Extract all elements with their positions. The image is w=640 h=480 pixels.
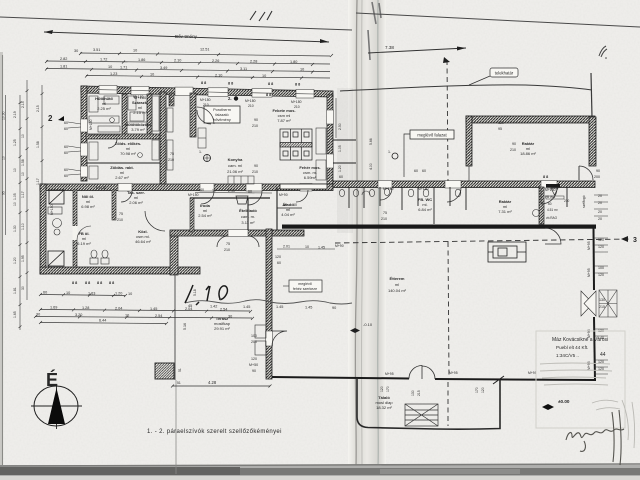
terrace left edge + chimney xyxy=(174,272,176,380)
svg-text:3: 3 xyxy=(633,237,637,244)
svg-text:1.81: 1.81 xyxy=(13,287,17,294)
svg-text:120: 120 xyxy=(498,121,504,125)
svg-text:8 8: 8 8 xyxy=(97,281,102,285)
svg-text:10: 10 xyxy=(150,73,154,77)
svg-text:M+180: M+180 xyxy=(418,187,429,191)
svg-text:60: 60 xyxy=(548,202,552,206)
svg-text:10: 10 xyxy=(13,202,17,206)
telekhatar label box xyxy=(469,68,518,85)
svg-text:1.45: 1.45 xyxy=(276,305,283,309)
svg-text:130: 130 xyxy=(411,390,415,396)
svg-text:Bőv-tmény: Bőv-tmény xyxy=(175,34,198,39)
svg-text:95: 95 xyxy=(498,127,502,131)
meglevo fehaz label right xyxy=(283,280,322,292)
telekhatar curve right xyxy=(340,85,592,91)
shelf right of kitchen xyxy=(280,184,327,189)
svg-text:20: 20 xyxy=(598,194,602,198)
svg-text:M+95: M+95 xyxy=(587,241,591,250)
svg-text:51: 51 xyxy=(178,368,182,372)
svg-text:21.06 m²: 21.06 m² xyxy=(227,169,243,174)
svg-text:6.98 m²: 6.98 m² xyxy=(81,204,95,209)
dashed section lines xyxy=(447,60,448,181)
svg-text:120: 120 xyxy=(598,273,604,277)
svg-text:1.40: 1.40 xyxy=(197,188,204,192)
7.38 dimension xyxy=(368,45,466,53)
left block inner wall xyxy=(73,190,77,267)
furniture left of etterem door xyxy=(255,325,266,355)
svg-text:60: 60 xyxy=(64,145,68,149)
kitchen small furniture xyxy=(198,128,326,184)
door jamb stub x169 xyxy=(169,93,174,106)
etterem left wall xyxy=(266,229,272,379)
svg-text:8 8: 8 8 xyxy=(266,93,271,97)
svg-text:2.28: 2.28 xyxy=(250,60,257,64)
svg-text:±0.00: ±0.00 xyxy=(558,399,570,404)
svg-text:100: 100 xyxy=(598,266,604,270)
inner wall v3 xyxy=(160,92,166,188)
svg-text:2.06 m²: 2.06 m² xyxy=(129,200,143,205)
left wall upper block xyxy=(81,86,87,181)
wall between Noi ol and Tak szer xyxy=(112,190,116,220)
svg-text:210: 210 xyxy=(252,124,258,128)
svg-text:60: 60 xyxy=(277,261,281,265)
svg-text:vb.RAO: vb.RAO xyxy=(546,216,558,220)
svg-text:M+180: M+180 xyxy=(383,187,394,191)
svg-text:2.01: 2.01 xyxy=(283,245,290,249)
double leaf door right xyxy=(581,291,596,316)
svg-text:2.19: 2.19 xyxy=(13,111,17,118)
svg-text:5.18: 5.18 xyxy=(193,289,197,296)
site boundary line left page xyxy=(0,17,352,30)
svg-text:1.58: 1.58 xyxy=(36,141,40,148)
stairs box annex xyxy=(405,404,438,426)
upper-left room fixtures xyxy=(89,96,173,179)
svg-text:M+95: M+95 xyxy=(385,372,394,376)
M+ labels xyxy=(96,95,570,376)
svg-text:1.17: 1.17 xyxy=(36,178,40,185)
terrace top wavy line xyxy=(185,300,352,304)
svg-text:1.20: 1.20 xyxy=(115,292,122,296)
svg-text:90: 90 xyxy=(252,369,256,373)
WC row partitions xyxy=(349,187,466,224)
svg-text:60: 60 xyxy=(64,121,68,125)
svg-text:M+180: M+180 xyxy=(96,186,107,190)
x-box window schedule xyxy=(599,290,617,317)
site boundary line right page xyxy=(356,13,640,27)
svg-text:M+180: M+180 xyxy=(291,100,302,104)
svg-text:2.50: 2.50 xyxy=(338,123,342,130)
svg-text:8 8: 8 8 xyxy=(201,81,206,85)
svg-text:215: 215 xyxy=(599,305,605,309)
svg-text:1.28: 1.28 xyxy=(82,306,89,310)
vestibule wall x540 xyxy=(539,187,544,224)
big Raktar left wall xyxy=(466,116,472,166)
stamp box xyxy=(536,331,625,428)
terrace chain numbers xyxy=(188,304,336,310)
inner wall v2 xyxy=(147,94,152,137)
svg-text:1.69: 1.69 xyxy=(50,306,57,310)
wall y230 corridor bottom xyxy=(170,230,304,236)
pantry column walls xyxy=(333,140,356,163)
svg-text:M+95: M+95 xyxy=(528,371,537,375)
svg-text:200: 200 xyxy=(251,340,257,344)
svg-text:1.45: 1.45 xyxy=(243,305,250,309)
svg-text:75: 75 xyxy=(170,152,174,156)
svg-text:210: 210 xyxy=(252,170,258,174)
Atado wall xyxy=(276,187,278,230)
svg-text:7.31 m²: 7.31 m² xyxy=(498,209,512,214)
chain y249 xyxy=(277,248,335,250)
marker 2. on top wall xyxy=(234,96,238,100)
svg-text:120: 120 xyxy=(251,357,257,361)
svg-text:10: 10 xyxy=(128,292,132,296)
svg-text:10: 10 xyxy=(212,189,216,193)
svg-text:Étterem: Étterem xyxy=(390,276,405,281)
svg-text:2.10: 2.10 xyxy=(228,189,235,193)
svg-text:75: 75 xyxy=(226,242,230,246)
svg-text:120: 120 xyxy=(380,386,384,392)
left block sinks/wc xyxy=(48,207,109,264)
svg-text:75: 75 xyxy=(119,212,123,216)
svg-text:18.32 m²: 18.32 m² xyxy=(376,405,392,410)
fence vertical right xyxy=(591,73,592,117)
svg-text:215: 215 xyxy=(417,390,421,396)
svg-text:7.38: 7.38 xyxy=(385,45,394,50)
svg-text:90: 90 xyxy=(332,306,336,310)
svg-text:8 8: 8 8 xyxy=(228,82,233,86)
svg-text:4.28: 4.28 xyxy=(208,380,217,385)
svg-text:Porotherm: Porotherm xyxy=(213,108,231,112)
svg-text:falazató: falazató xyxy=(215,113,228,117)
handwritten 1,10 xyxy=(185,285,227,305)
svg-text:2.25 m²: 2.25 m² xyxy=(97,106,111,111)
svg-text:1.10: 1.10 xyxy=(21,223,25,230)
svg-text:4.51 m²: 4.51 m² xyxy=(547,208,558,212)
raktar door arc bottom right xyxy=(579,166,593,180)
svg-text:20: 20 xyxy=(598,217,602,221)
WC fixtures xyxy=(339,188,460,196)
handwritten 111 top xyxy=(250,11,272,21)
svg-text:90: 90 xyxy=(596,169,600,173)
svg-text:10: 10 xyxy=(305,245,309,249)
svg-text:10: 10 xyxy=(108,65,112,69)
svg-text:200: 200 xyxy=(594,175,600,179)
north arrow xyxy=(31,369,82,429)
svg-text:M+180: M+180 xyxy=(169,92,173,103)
svg-text:FB WC: FB WC xyxy=(545,195,556,199)
svg-text:meglévő falazat: meglévő falazat xyxy=(417,133,447,138)
svg-text:2.: 2. xyxy=(228,96,232,101)
terrace upper wall L xyxy=(170,231,178,275)
right wall lower section xyxy=(593,228,596,290)
svg-text:M+95: M+95 xyxy=(449,371,458,375)
svg-text:18.86 m²: 18.86 m² xyxy=(520,151,536,156)
svg-text:10: 10 xyxy=(21,134,25,138)
annex talalo outline xyxy=(357,379,500,429)
svg-text:2: 2 xyxy=(48,114,53,123)
svg-text:telekhatár: telekhatár xyxy=(495,71,514,76)
svg-text:3.11 m²: 3.11 m² xyxy=(241,220,255,225)
right margin dim column xyxy=(597,194,605,371)
svg-text:12.51: 12.51 xyxy=(200,48,210,52)
svg-text:170: 170 xyxy=(475,387,479,393)
entry desk etterem xyxy=(488,242,526,262)
svg-text:10: 10 xyxy=(13,168,17,172)
svg-text:fehéz szerkeze: fehéz szerkeze xyxy=(293,287,317,291)
extra 8 8 pairs bottom-left xyxy=(85,281,114,285)
svg-text:M+180: M+180 xyxy=(245,99,256,103)
svg-text:M+180: M+180 xyxy=(200,98,211,102)
svg-text:2.26: 2.26 xyxy=(212,59,219,63)
rotated door dims bottom xyxy=(193,289,485,396)
inner wall v1 xyxy=(122,94,127,137)
kitchen circles xyxy=(204,155,211,162)
svg-text:1.95: 1.95 xyxy=(21,255,25,262)
svg-text:1.: 1. xyxy=(199,150,202,154)
svg-text:210: 210 xyxy=(248,104,254,108)
svg-text:120: 120 xyxy=(598,245,604,249)
svg-text:Ételkiadó: Ételkiadó xyxy=(239,208,257,213)
svg-text:1.45: 1.45 xyxy=(318,246,325,250)
svg-text:1.72: 1.72 xyxy=(100,58,107,62)
svg-text:30: 30 xyxy=(228,315,232,319)
top wall upper-left block xyxy=(81,86,333,97)
chain y192 left xyxy=(195,192,272,195)
svg-text:210: 210 xyxy=(510,148,516,152)
svg-text:cam. m.: cam. m. xyxy=(241,214,255,219)
svg-text:8 8: 8 8 xyxy=(295,83,300,87)
svg-text:30: 30 xyxy=(74,49,78,53)
svg-text:210: 210 xyxy=(168,158,174,162)
svg-text:M+180: M+180 xyxy=(89,119,93,130)
svg-text:8 8: 8 8 xyxy=(72,281,77,285)
svg-text:2.54: 2.54 xyxy=(155,314,162,318)
svg-text:70.98 m²: 70.98 m² xyxy=(120,151,136,156)
meglevo falazat label xyxy=(404,130,454,177)
svg-text:210: 210 xyxy=(564,199,570,203)
svg-text:M+95: M+95 xyxy=(587,268,591,277)
svg-text:5.66: 5.66 xyxy=(369,138,373,145)
svg-text:46.64 m²: 46.64 m² xyxy=(135,239,151,244)
serving hatch Etelkiado xyxy=(236,196,248,204)
bottom-left dim chains xyxy=(35,295,252,324)
svg-text:8 8: 8 8 xyxy=(109,281,114,285)
heavy front wall kitchen block xyxy=(282,225,596,229)
svg-text:90: 90 xyxy=(512,142,516,146)
svg-text:M+150: M+150 xyxy=(188,193,199,197)
svg-text:1.: 1. xyxy=(388,150,391,154)
svg-text:Puebl elt 44 Kft.: Puebl elt 44 Kft. xyxy=(556,345,588,350)
svg-text:140.04 m²: 140.04 m² xyxy=(388,288,407,293)
svg-text:1.05: 1.05 xyxy=(13,193,17,200)
-0.10 mark etterem xyxy=(350,328,360,333)
svg-text:1.81: 1.81 xyxy=(60,65,67,69)
svg-text:1.71: 1.71 xyxy=(120,66,127,70)
svg-text:1.58: 1.58 xyxy=(21,159,25,166)
svg-text:120: 120 xyxy=(598,238,604,242)
svg-text:2.10: 2.10 xyxy=(174,59,181,63)
svg-text:29.91 m²: 29.91 m² xyxy=(214,326,230,331)
handwritten check top right xyxy=(599,46,607,57)
svg-text:1.25: 1.25 xyxy=(13,139,17,146)
svg-text:95: 95 xyxy=(2,191,6,195)
svg-text:6.59m²: 6.59m² xyxy=(304,175,317,180)
kitchen equipment grid xyxy=(280,129,312,160)
terrace bottom dim xyxy=(172,385,270,387)
svg-text:10: 10 xyxy=(21,172,25,176)
svg-text:M+95: M+95 xyxy=(587,361,591,370)
small dims pairs xyxy=(64,118,600,265)
svg-text:90: 90 xyxy=(254,118,258,122)
left paper edge xyxy=(0,52,3,468)
svg-text:60: 60 xyxy=(64,151,68,155)
big Raktar top wall xyxy=(466,116,595,123)
svg-text:130: 130 xyxy=(599,298,605,302)
svg-text:2.67 m²: 2.67 m² xyxy=(115,175,129,180)
svg-text:szélfogó: szélfogó xyxy=(582,195,586,208)
svg-text:3.51: 3.51 xyxy=(93,48,100,52)
double door at etterem bottom xyxy=(409,366,435,380)
svg-text:210: 210 xyxy=(224,248,230,252)
svg-text:2.54 m²: 2.54 m² xyxy=(198,213,212,218)
left block bottom wall xyxy=(40,267,200,274)
fold crease band center xyxy=(348,0,386,468)
wall v4 kitchen left jamb xyxy=(190,93,196,137)
etterem door arc xyxy=(272,331,287,346)
svg-text:M+90: M+90 xyxy=(279,193,288,197)
svg-text:5.16: 5.16 xyxy=(183,323,187,330)
kitchen right wall xyxy=(327,95,333,187)
8 8 symbol pairs xyxy=(72,81,548,285)
svg-text:3.49: 3.49 xyxy=(160,66,167,70)
svg-text:1.42: 1.42 xyxy=(210,304,217,308)
Bov-tmeny dimension arrow xyxy=(44,30,329,43)
svg-text:M+90: M+90 xyxy=(335,244,344,248)
svg-text:30: 30 xyxy=(36,313,40,317)
svg-text:60: 60 xyxy=(414,169,418,173)
svg-text:M+180: M+180 xyxy=(545,188,556,192)
svg-text:2.15 m³: 2.15 m³ xyxy=(133,110,147,115)
svg-text:1.05: 1.05 xyxy=(338,145,342,152)
svg-text:10: 10 xyxy=(262,74,266,78)
svg-text:51: 51 xyxy=(177,381,181,385)
svg-text:75: 75 xyxy=(383,211,387,215)
kitchen top-left door arcs xyxy=(197,107,214,124)
svg-text:1.80: 1.80 xyxy=(290,60,297,64)
svg-text:Konyha: Konyha xyxy=(228,157,243,162)
porotherm label box xyxy=(204,106,240,123)
svg-text:20: 20 xyxy=(598,201,602,205)
svg-text:60: 60 xyxy=(64,168,68,172)
svg-text:1:34C/V5 ..: 1:34C/V5 .. xyxy=(556,353,579,358)
svg-text:44: 44 xyxy=(600,352,606,358)
svg-text:M+50: M+50 xyxy=(249,363,258,367)
svg-text:Máz Kovácsikné a Városi: Máz Kovácsikné a Városi xyxy=(552,337,608,343)
bottom paper edge band xyxy=(0,465,640,478)
svg-text:60: 60 xyxy=(422,169,426,173)
long wall over corridor (left part) xyxy=(40,184,333,191)
svg-text:10.30: 10.30 xyxy=(2,111,6,120)
svg-text:1.20: 1.20 xyxy=(338,165,342,172)
svg-text:8 8: 8 8 xyxy=(268,82,273,86)
svg-text:6.19 m²: 6.19 m² xyxy=(77,241,91,246)
svg-text:30: 30 xyxy=(21,286,25,290)
etterem bottom wall xyxy=(272,377,596,380)
svg-text:4.00: 4.00 xyxy=(369,163,373,170)
window gaps in top wall xyxy=(99,86,314,99)
svg-text:10: 10 xyxy=(66,291,70,295)
svg-text:60: 60 xyxy=(339,175,343,179)
signature xyxy=(566,410,624,465)
svg-text:210: 210 xyxy=(117,218,123,222)
Iroda walls xyxy=(190,197,270,199)
svg-text:2.82: 2.82 xyxy=(60,57,67,61)
svg-text:10: 10 xyxy=(2,156,6,160)
svg-text:1.86: 1.86 xyxy=(138,58,145,62)
left block fixtures: shower squares xyxy=(48,190,64,266)
svg-text:8 8: 8 8 xyxy=(543,175,548,179)
svg-text:3.79 m²: 3.79 m² xyxy=(131,127,145,132)
diagonal tick bottom wall xyxy=(493,376,504,384)
svg-text:4.04 m²: 4.04 m² xyxy=(281,212,295,217)
svg-text:2.15: 2.15 xyxy=(36,105,40,112)
svg-text:6.44: 6.44 xyxy=(99,319,106,323)
svg-text:M+150: M+150 xyxy=(50,204,54,215)
svg-text:cam. ml: cam. ml xyxy=(228,163,242,168)
door arcs xyxy=(108,139,561,247)
svg-text:120: 120 xyxy=(275,255,281,259)
inner wall horizontal y137 xyxy=(86,134,166,139)
left block left wall xyxy=(40,184,46,274)
svg-text:1.45: 1.45 xyxy=(305,306,312,310)
big Raktar right wall xyxy=(589,117,596,166)
svg-text:60: 60 xyxy=(64,127,68,131)
svg-text:-0.10: -0.10 xyxy=(363,322,373,327)
long wall right page y181 xyxy=(333,181,595,188)
svg-text:1.45: 1.45 xyxy=(150,307,157,311)
vestibule fixtures xyxy=(551,188,558,195)
svg-text:10: 10 xyxy=(133,49,137,53)
svg-text:3.20: 3.20 xyxy=(75,313,82,317)
svg-text:6.84 m²: 6.84 m² xyxy=(418,207,432,212)
svg-text:2.54: 2.54 xyxy=(220,308,227,312)
svg-text:1.65: 1.65 xyxy=(13,311,17,318)
svg-text:1.63: 1.63 xyxy=(88,291,95,295)
svg-text:1.23: 1.23 xyxy=(110,72,117,76)
svg-text:bővítmény: bővítmény xyxy=(213,118,231,122)
svg-text:60: 60 xyxy=(43,291,47,295)
svg-text:20: 20 xyxy=(598,210,602,214)
svg-text:1.20: 1.20 xyxy=(13,257,17,264)
svg-text:meglévő: meglévő xyxy=(298,282,312,286)
svg-text:120: 120 xyxy=(481,387,485,393)
svg-text:ml: ml xyxy=(395,282,399,287)
svg-text:210: 210 xyxy=(381,217,387,221)
svg-text:8 8: 8 8 xyxy=(85,281,90,285)
svg-text:60: 60 xyxy=(64,174,68,178)
svg-text:10: 10 xyxy=(300,68,304,72)
svg-text:2.15: 2.15 xyxy=(21,101,25,108)
svg-text:90: 90 xyxy=(254,164,258,168)
svg-text:1. - 2. páraelszívók szerelt: 1. - 2. páraelszívók szerelt szellőzőkém… xyxy=(147,429,282,435)
svg-text:2.10: 2.10 xyxy=(215,74,222,78)
svg-text:7.87 m²: 7.87 m² xyxy=(277,118,291,123)
svg-text:10: 10 xyxy=(125,314,129,318)
svg-text:100: 100 xyxy=(251,334,257,338)
svg-text:1.30: 1.30 xyxy=(13,225,17,232)
line above Zoldas rakt xyxy=(87,162,160,164)
svg-text:60: 60 xyxy=(248,190,252,194)
